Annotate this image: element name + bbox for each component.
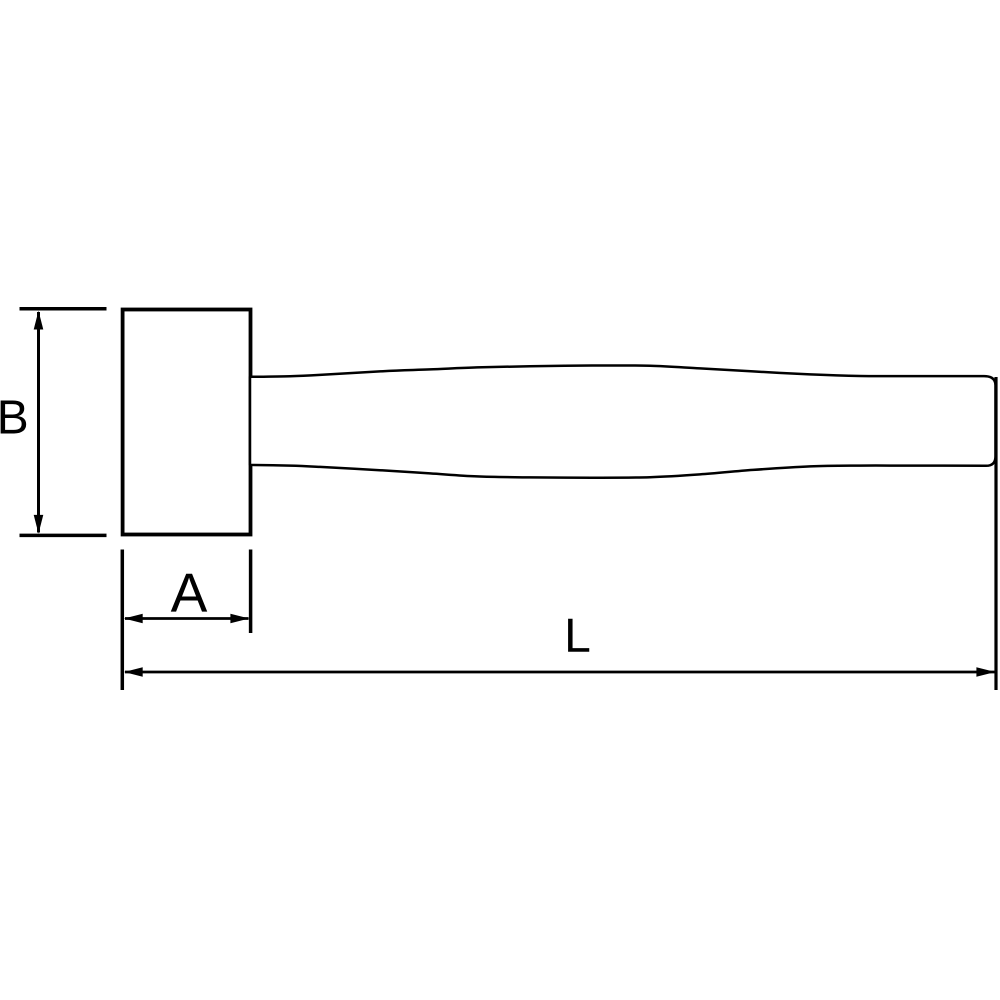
- dimension B bottom extension line: [20, 534, 107, 538]
- hammer head (rectangle): [123, 310, 251, 535]
- dimension A horizontal dimension line: [125, 617, 249, 620]
- dimension L left arrowhead: [124, 667, 143, 677]
- label A: [171, 574, 207, 612]
- dimension A left arrowhead: [124, 614, 143, 624]
- dimension L horizontal dimension line: [125, 671, 995, 674]
- dimension A right arrowhead: [230, 614, 249, 624]
- dimension L right extension line: [994, 377, 997, 690]
- label B: [1, 400, 27, 433]
- dimension B vertical dimension line: [37, 312, 40, 533]
- hammer handle outline: [250, 365, 996, 477]
- dimension B top arrowhead: [34, 311, 44, 330]
- dimension B top extension line: [20, 307, 107, 311]
- dimension B bottom arrowhead: [34, 515, 44, 534]
- dimension A right extension line: [249, 550, 253, 634]
- dimension L right arrowhead: [976, 667, 995, 677]
- dimension A/L shared left extension line: [121, 550, 125, 691]
- label L: [568, 619, 589, 652]
